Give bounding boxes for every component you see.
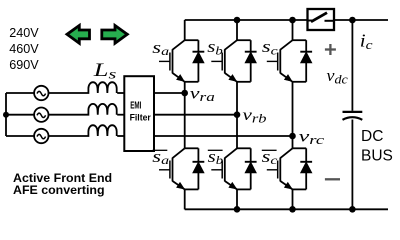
svg-text:Filter: Filter — [130, 112, 152, 122]
svg-text:460V: 460V — [9, 42, 39, 56]
svg-text:240V: 240V — [9, 26, 39, 40]
svg-text:AFE converting: AFE converting — [13, 183, 105, 197]
svg-text:DC: DC — [361, 128, 383, 145]
svg-text:BUS: BUS — [361, 147, 393, 164]
svg-text:EMI: EMI — [130, 101, 141, 112]
svg-text:690V: 690V — [9, 58, 39, 72]
